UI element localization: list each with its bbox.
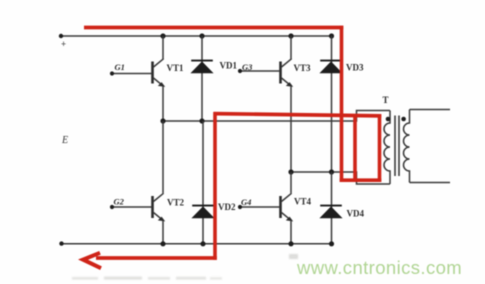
current path: red left side of primary loop xyxy=(353,115,357,180)
transformer T secondary winding xyxy=(404,110,410,183)
transformer T primary winding xyxy=(384,111,390,185)
current path: right red vertical xyxy=(340,26,344,182)
transistor VT1 xyxy=(151,59,165,87)
transistor VT3 xyxy=(279,59,293,87)
wire: VT1 collector lead xyxy=(162,36,164,59)
svg-text:G2: G2 xyxy=(114,197,125,207)
scan artifact: small gray smudge left of watermark xyxy=(289,254,298,259)
diode VD4 xyxy=(331,172,333,244)
node: primary polarity dot xyxy=(386,117,391,122)
wire: VT3 emitter lead xyxy=(290,86,292,172)
wire: secondary bottom lead xyxy=(410,182,451,184)
node: G2 terminal xyxy=(110,205,114,209)
node: G4 terminal xyxy=(238,205,242,209)
diode VD3 xyxy=(331,36,333,172)
svg-text:VT1: VT1 xyxy=(167,63,185,73)
svg-text:VD2: VD2 xyxy=(218,202,236,212)
current path: top red segment xyxy=(84,26,343,30)
node: junction top bus / VD1 cathode xyxy=(199,33,204,38)
svg-text:VT3: VT3 xyxy=(294,63,312,73)
node: G1 terminal xyxy=(110,71,114,75)
transistor VT4 xyxy=(279,193,293,221)
current path: red right side of primary loop xyxy=(378,114,382,182)
wire: VT1 emitter lead xyxy=(162,86,164,121)
diode VD2 xyxy=(202,121,204,244)
current path: red bottom of primary loop xyxy=(340,178,382,182)
svg-text:G1: G1 xyxy=(115,62,125,72)
svg-text:VT4: VT4 xyxy=(294,197,312,207)
svg-text:www.cntronics.com: www.cntronics.com xyxy=(296,257,462,278)
node: junction bottom bus / VD4 anode xyxy=(329,241,334,246)
node: junction bottom bus / VT2 emitter xyxy=(160,241,165,246)
diode VD1 xyxy=(201,36,203,121)
svg-text:E: E xyxy=(61,135,68,146)
node: junction top bus / VD3 cathode xyxy=(329,33,334,38)
wire: VT3 collector lead xyxy=(290,36,292,59)
node: + terminal dot xyxy=(59,34,63,38)
transistor VT2 xyxy=(151,193,165,221)
node: junction bottom bus / VT4 emitter xyxy=(288,241,293,246)
node: junction top bus / VT1 collector xyxy=(160,33,165,38)
current path: middle red vertical xyxy=(213,112,217,260)
wire: secondary top lead xyxy=(410,109,451,111)
node: midpoint / VT3-VT4 xyxy=(288,169,293,174)
wire: top DC bus xyxy=(61,35,332,37)
current path: red arrowhead xyxy=(83,253,101,268)
wire: VT4 collector lead xyxy=(290,172,292,193)
node: junction top bus / VT3 collector xyxy=(288,33,293,38)
wire: left bridge midpoint to transformer primary top xyxy=(163,111,390,122)
node: midpoint / VT1-VT2 xyxy=(160,118,165,123)
current path: middle red horizontal xyxy=(214,114,382,116)
svg-text:T: T xyxy=(383,95,389,105)
node: G3 terminal xyxy=(238,69,242,73)
scan artifact: faint ghost caption row xyxy=(72,277,222,280)
wire: VT4 emitter lead xyxy=(290,221,292,244)
wire: G2 base lead xyxy=(112,206,152,208)
svg-text:VD4: VD4 xyxy=(347,209,365,219)
wire: right bridge midpoint to transformer primary bottom xyxy=(291,172,390,184)
wire: G3 base lead xyxy=(240,70,280,72)
node: junction bottom bus / VD2 anode xyxy=(200,241,205,246)
svg-text:VD1: VD1 xyxy=(220,61,238,71)
svg-text:VT2: VT2 xyxy=(167,198,185,208)
svg-text:VD3: VD3 xyxy=(346,63,364,73)
wire: bottom DC bus xyxy=(62,243,332,245)
node: midpoint / VD3-VD4 xyxy=(329,169,334,174)
wire: VT2 emitter lead xyxy=(162,221,164,244)
transformer T core xyxy=(394,116,396,177)
svg-text:G3: G3 xyxy=(242,62,253,72)
node: secondary polarity dot xyxy=(401,117,406,122)
svg-text:G4: G4 xyxy=(241,197,251,207)
current path: bottom red segment xyxy=(96,256,217,260)
wire: G4 base lead xyxy=(240,206,280,208)
node: midpoint / VD1-VD2 xyxy=(199,118,204,123)
svg-text:+: + xyxy=(61,39,66,49)
node: - terminal dot xyxy=(59,241,63,245)
wire: VT2 collector lead xyxy=(162,121,164,193)
wire: G1 base lead xyxy=(112,73,152,75)
